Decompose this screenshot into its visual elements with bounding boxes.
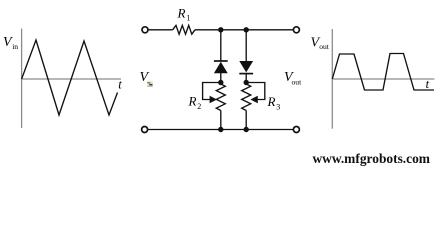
label R3 <box>267 94 281 111</box>
wire input-waveform <box>22 40 118 115</box>
node input terminal bottom <box>142 127 148 133</box>
wire right branch lower <box>245 111 247 130</box>
node input terminal top <box>142 27 148 33</box>
wiper of R3 <box>246 83 265 104</box>
node Vout-label (right graph) <box>311 36 330 52</box>
label Vout (circuit) <box>284 70 302 86</box>
svg-text:1: 1 <box>187 14 191 23</box>
node junction bottom-left <box>218 127 223 132</box>
svg-text:2: 2 <box>197 102 201 111</box>
wire left branch mid <box>220 73 222 84</box>
wire bottom rail <box>148 129 294 131</box>
node junction bottom-right <box>244 127 249 132</box>
potentiometer R3 body <box>242 84 251 111</box>
svg-text:www.mfgrobots.com: www.mfgrobots.com <box>313 152 431 167</box>
svg-text:t: t <box>118 77 122 91</box>
svg-text:R: R <box>188 94 197 109</box>
node junction top-right <box>244 27 249 32</box>
label R1 <box>177 6 191 23</box>
wire vertical-axis (left graph) <box>21 29 23 129</box>
wire left branch upper <box>220 30 222 61</box>
svg-text:in: in <box>12 42 18 51</box>
node output terminal top <box>293 27 299 33</box>
wire output-waveform <box>332 54 434 91</box>
node Vin-label (left graph) <box>3 35 18 51</box>
node output terminal bottom <box>293 127 299 133</box>
svg-text:out: out <box>319 42 330 51</box>
wire right branch upper <box>245 30 247 62</box>
wire horizontal-axis (right graph) <box>332 78 434 80</box>
svg-text:R: R <box>177 6 186 21</box>
wire left branch lower <box>220 111 222 130</box>
svg-text:out: out <box>292 77 303 86</box>
svg-text:t: t <box>426 77 430 91</box>
diode D2 (cathode down) <box>239 61 253 74</box>
resistor R1 <box>173 25 195 34</box>
svg-text:R: R <box>267 94 276 109</box>
label Vin (circuit) <box>140 70 153 87</box>
wire vertical-axis (right graph) <box>331 29 333 129</box>
wire horizontal-axis (left graph) <box>22 78 121 80</box>
wire top rail right <box>195 29 293 31</box>
diode D1 (cathode up) <box>214 61 228 73</box>
node between D1 and R2 <box>218 80 223 85</box>
svg-text:3: 3 <box>276 102 280 111</box>
wire right branch mid <box>245 74 247 84</box>
node junction top-left <box>218 27 223 32</box>
wire top rail left <box>148 29 172 31</box>
label R2 <box>188 94 202 111</box>
potentiometer R2 body <box>216 84 225 111</box>
wiper of R2 <box>203 83 221 104</box>
node between D2 and R3 <box>244 80 249 85</box>
